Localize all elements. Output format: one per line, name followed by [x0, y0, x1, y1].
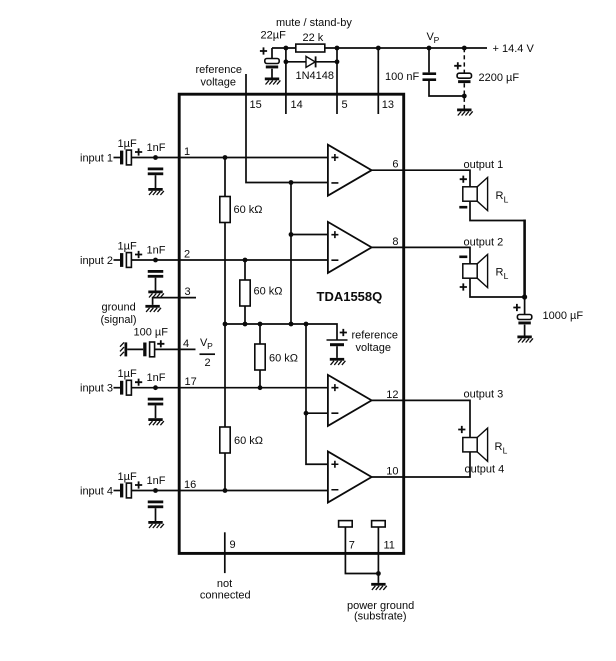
- op-amp A4: [328, 452, 372, 503]
- svg-text:17: 17: [185, 376, 197, 388]
- VP/2 label: [200, 337, 216, 369]
- wire spk2 bottom: [470, 278, 525, 297]
- svg-text:L: L: [504, 271, 509, 281]
- wire input3 to pin 17: [131, 387, 328, 389]
- plus sign C3: [454, 62, 461, 69]
- capacitor 1nF input1: [148, 168, 164, 176]
- svg-text:TDA1558Q: TDA1558Q: [317, 289, 383, 304]
- svg-text:voltage: voltage: [356, 342, 391, 354]
- svg-text:15: 15: [250, 99, 262, 111]
- node pin17 bias: [258, 385, 263, 390]
- capacitor 1uF input1: [120, 150, 131, 165]
- svg-text:reference: reference: [352, 330, 398, 342]
- svg-text:input 4: input 4: [80, 486, 113, 498]
- plus sign spk2: [460, 283, 467, 290]
- capacitor 1uF input2: [120, 253, 131, 268]
- pin 15 wire: [246, 74, 328, 183]
- svg-text:1µF: 1µF: [118, 138, 137, 150]
- svg-text:11: 11: [384, 540, 395, 552]
- wire input2 to pin 2: [131, 259, 328, 261]
- wire pin4 right: [155, 348, 196, 350]
- pin 13 wire: [377, 48, 379, 114]
- node amp1 minus: [289, 180, 294, 185]
- wire 1nF input2 down: [155, 278, 157, 291]
- node input1: [153, 155, 158, 160]
- svg-text:R: R: [496, 190, 504, 202]
- minus sign spk1: [459, 206, 467, 209]
- plus sign spk1: [460, 176, 467, 183]
- svg-text:5: 5: [342, 99, 348, 111]
- resistor R2 60k: [220, 197, 230, 223]
- ground signal symbol: [145, 305, 161, 312]
- plus sign input1: [135, 148, 142, 155]
- svg-text:+ 14.4 V: + 14.4 V: [493, 43, 535, 55]
- svg-text:R: R: [495, 441, 503, 453]
- node bus x306: [304, 322, 309, 327]
- svg-text:9: 9: [230, 539, 236, 551]
- speaker RL2: [463, 254, 488, 287]
- node pin14 top: [284, 46, 289, 51]
- plus sign C4: [513, 304, 520, 311]
- svg-text:60 kΩ: 60 kΩ: [254, 286, 283, 298]
- capacitor 1uF input3: [120, 380, 131, 395]
- plus sign input2: [135, 251, 142, 258]
- svg-text:input 2: input 2: [80, 255, 113, 267]
- svg-text:output 1: output 1: [464, 159, 504, 171]
- svg-text:output 4: output 4: [465, 464, 505, 476]
- wire 1nF input4 down: [155, 508, 157, 521]
- ground input1: [148, 188, 164, 195]
- resistor R4 60k: [255, 344, 265, 370]
- ground below C1: [265, 78, 281, 85]
- node amp3 minus: [304, 411, 309, 416]
- svg-text:3: 3: [185, 286, 191, 298]
- node pin16 bias: [223, 488, 228, 493]
- plus sign spk3: [458, 426, 465, 433]
- node 2200uF bottom: [462, 94, 467, 99]
- minus sign spk2: [459, 256, 467, 259]
- svg-text:4: 4: [183, 338, 189, 350]
- svg-text:6: 6: [392, 159, 398, 171]
- svg-text:1nF: 1nF: [147, 245, 166, 257]
- svg-text:1µF: 1µF: [118, 241, 137, 253]
- bias chain wire x245: [244, 260, 246, 324]
- pin 11 pad: [372, 521, 386, 527]
- plus sign ref cap: [340, 329, 347, 336]
- capacitor C3 2200uF: [457, 73, 471, 83]
- svg-text:R: R: [496, 267, 504, 279]
- supply rail wire: [272, 47, 487, 49]
- plus sign 100uF: [157, 340, 164, 347]
- node pin5 top: [335, 46, 340, 51]
- capacitor C4 1000uF: [517, 315, 531, 325]
- svg-text:2: 2: [205, 357, 211, 369]
- svg-text:input 3: input 3: [80, 383, 113, 395]
- diode D1 1N4148: [306, 56, 316, 67]
- pin 7 wire: [345, 527, 378, 574]
- bias chain wire x260: [259, 324, 261, 388]
- svg-text:60 kΩ: 60 kΩ: [234, 204, 263, 216]
- tie wire x306: [306, 324, 328, 464]
- wire amp2 plus: [291, 234, 328, 236]
- svg-text:L: L: [503, 446, 508, 456]
- svg-text:mute / stand-by: mute / stand-by: [276, 17, 352, 29]
- svg-text:100 µF: 100 µF: [134, 327, 169, 339]
- svg-text:reference: reference: [196, 64, 242, 76]
- ground input3: [148, 418, 164, 425]
- svg-text:22µF: 22µF: [261, 30, 287, 42]
- svg-text:2200 µF: 2200 µF: [479, 72, 520, 84]
- wire 1nF input1 down: [155, 175, 157, 188]
- svg-text:output 2: output 2: [464, 237, 504, 249]
- svg-text:input 1: input 1: [80, 153, 113, 165]
- svg-text:10: 10: [386, 466, 398, 478]
- svg-text:P: P: [207, 341, 213, 351]
- plus sign input4: [135, 481, 142, 488]
- resistor R5 60k: [220, 427, 230, 453]
- capacitor 1nF input4: [148, 501, 164, 509]
- speaker RL1: [463, 177, 488, 210]
- pin 9 wire: [224, 532, 226, 573]
- ground C4: [517, 336, 533, 343]
- svg-text:1µF: 1µF: [118, 368, 137, 380]
- plus sign input3: [135, 379, 142, 386]
- svg-text:1µF: 1µF: [118, 471, 137, 483]
- capacitor 1nF input2: [148, 270, 164, 278]
- resistor R1 22k: [296, 44, 325, 52]
- wire input4 to pin 16: [131, 490, 328, 492]
- wire input2 stub: [114, 259, 121, 261]
- pin 12 output wire: [372, 400, 470, 437]
- svg-text:60 kΩ: 60 kΩ: [234, 435, 263, 447]
- node bus x225: [223, 322, 228, 327]
- wire 1nF input3 down: [155, 405, 157, 418]
- svg-text:12: 12: [386, 389, 398, 401]
- pin 10 output wire: [372, 452, 470, 477]
- node VP: [427, 46, 432, 51]
- wire input1 stub: [114, 157, 121, 159]
- svg-text:ground: ground: [102, 302, 136, 314]
- svg-text:output 3: output 3: [464, 389, 504, 401]
- svg-text:(substrate): (substrate): [354, 611, 407, 623]
- chassis wall pin4: [120, 342, 127, 356]
- node amp2 plus: [289, 232, 294, 237]
- ground input2: [148, 291, 164, 298]
- wire C2 branch: [429, 48, 464, 96]
- node input2: [153, 258, 158, 263]
- node bus x291: [289, 322, 294, 327]
- ground ref cap: [330, 358, 346, 365]
- pin 11 wire: [377, 527, 379, 583]
- capacitor C2 100nF: [423, 72, 437, 81]
- svg-text:2: 2: [184, 249, 190, 261]
- svg-text:1nF: 1nF: [147, 475, 166, 487]
- svg-text:connected: connected: [200, 590, 251, 602]
- node diode right: [335, 59, 340, 64]
- svg-text:not: not: [217, 578, 232, 590]
- capacitor 1nF input3: [148, 398, 164, 406]
- svg-text:60 kΩ: 60 kΩ: [269, 353, 298, 365]
- ground below C3: [457, 109, 473, 116]
- pin 5 wire: [336, 48, 338, 114]
- resistor R3 60k: [240, 280, 250, 306]
- pin 6 output wire: [372, 170, 470, 187]
- pin 8 output wire: [372, 247, 470, 263]
- svg-text:voltage: voltage: [201, 77, 236, 89]
- wire amp3 minus: [306, 412, 328, 414]
- node bus x245: [243, 322, 248, 327]
- capacitor 1uF input4: [120, 483, 131, 498]
- svg-text:13: 13: [382, 99, 394, 111]
- wire input3 stub: [114, 387, 121, 389]
- node diode left: [284, 59, 289, 64]
- op-amp A3: [328, 375, 372, 426]
- pin 14 wire: [285, 48, 287, 114]
- VP/2 bus wire: [225, 324, 337, 340]
- power ground symbol: [371, 583, 387, 590]
- ground input4: [148, 521, 164, 528]
- wire diode branch: [286, 61, 337, 63]
- svg-text:L: L: [504, 195, 509, 205]
- op-amp A1: [328, 145, 372, 196]
- inverting tie wire x291: [290, 183, 292, 325]
- speaker RL3: [463, 428, 488, 461]
- svg-text:22 k: 22 k: [303, 32, 324, 44]
- svg-text:1N4148: 1N4148: [296, 70, 335, 82]
- node power ground: [376, 571, 381, 576]
- plus sign C1: [260, 47, 267, 54]
- svg-text:1: 1: [184, 146, 190, 158]
- op-amp A2: [328, 222, 372, 273]
- svg-text:1nF: 1nF: [147, 372, 166, 384]
- capacitor C1 22uF: [265, 59, 279, 69]
- wire spk1 bottom: [470, 201, 525, 220]
- svg-text:P: P: [434, 35, 440, 45]
- bias chain wire x225: [224, 158, 226, 491]
- capacitor 100uF: [143, 342, 154, 357]
- svg-text:8: 8: [392, 236, 398, 248]
- svg-text:100 nF: 100 nF: [385, 71, 420, 83]
- svg-text:16: 16: [184, 479, 196, 491]
- node pin1 bias: [223, 155, 228, 160]
- pin 7 pad: [339, 521, 353, 527]
- svg-text:14: 14: [291, 99, 303, 111]
- pin 3 wire: [153, 298, 196, 305]
- IC package box TDA1558Q: [179, 94, 404, 553]
- wire pin4 left: [127, 348, 143, 350]
- node pin2 bias: [243, 258, 248, 263]
- reference voltage capacitor internal: [327, 340, 348, 358]
- node bus x260: [258, 322, 263, 327]
- wire 22uF stem: [271, 48, 273, 78]
- thick return wire: [523, 220, 526, 298]
- node input3: [153, 385, 158, 390]
- svg-text:(signal): (signal): [101, 314, 137, 326]
- svg-text:1nF: 1nF: [147, 142, 166, 154]
- wire input1 to pin 1: [131, 157, 328, 159]
- node pin13 top: [376, 46, 381, 51]
- node input4: [153, 488, 158, 493]
- svg-text:7: 7: [349, 540, 355, 552]
- svg-text:1000 µF: 1000 µF: [543, 310, 584, 322]
- node 2200uF top: [462, 46, 467, 51]
- wire input4 stub: [114, 490, 121, 492]
- dashed wire 2200uF: [463, 48, 465, 109]
- wire 1000uF: [524, 297, 526, 336]
- node 1000uF: [522, 294, 527, 299]
